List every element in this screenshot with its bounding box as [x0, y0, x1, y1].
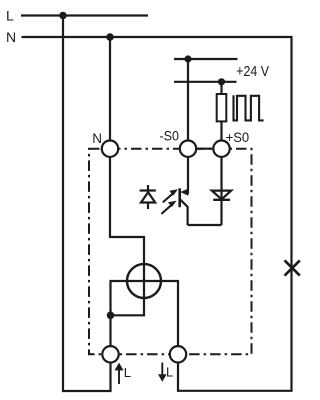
arrow L in (up)	[115, 363, 124, 384]
junction L bus	[59, 12, 67, 20]
svg-text:N: N	[92, 131, 102, 146]
diode D2	[212, 157, 231, 225]
wire N bus and right drop to load	[22, 37, 292, 391]
arrow L out (down)	[158, 363, 167, 382]
phototransistor T1	[180, 157, 189, 225]
wire N terminal drop from bus	[109, 37, 111, 141]
svg-text:N: N	[6, 29, 16, 45]
24V rail upper (0V)	[174, 58, 238, 60]
wire +S0 drop upper	[220, 82, 222, 94]
terminal -S0	[180, 141, 196, 157]
lamp load X	[285, 260, 300, 275]
terminal L in	[102, 346, 118, 362]
wire resistor to +S0	[220, 121, 222, 140]
terminal N	[102, 141, 118, 157]
meter measuring element M	[127, 264, 161, 298]
svg-text:L: L	[166, 365, 173, 380]
wire -S0 drop	[187, 59, 189, 141]
svg-text:+24 V: +24 V	[236, 64, 269, 80]
svg-text:L: L	[124, 365, 131, 380]
wire current path through meter	[111, 281, 179, 346]
junction lower rail	[218, 78, 225, 85]
junction upper rail	[184, 55, 191, 62]
wire opto bottom	[188, 224, 222, 226]
device outline (dash-dot enclosure)	[89, 149, 252, 355]
svg-text:-S0: -S0	[160, 128, 180, 144]
LED indicator D1	[140, 185, 156, 209]
wire N terminal to meter voltage path	[110, 157, 144, 315]
light arrows to phototransistor	[161, 189, 178, 214]
wire L bus	[21, 14, 148, 16]
24V rail lower (+24V)	[174, 81, 237, 83]
wire link -S0 to +S0	[196, 148, 213, 150]
terminal +S0	[213, 141, 229, 157]
svg-text:L: L	[6, 8, 14, 24]
resistor R	[217, 94, 227, 121]
svg-text:+S0: +S0	[226, 129, 250, 145]
terminal L out	[170, 346, 186, 362]
junction N bus	[106, 33, 114, 41]
wire L feed: left side down, along bottom, up to L-in terminal	[63, 16, 111, 392]
junction on current path	[107, 312, 115, 320]
pulse waveform symbol	[234, 95, 264, 120]
